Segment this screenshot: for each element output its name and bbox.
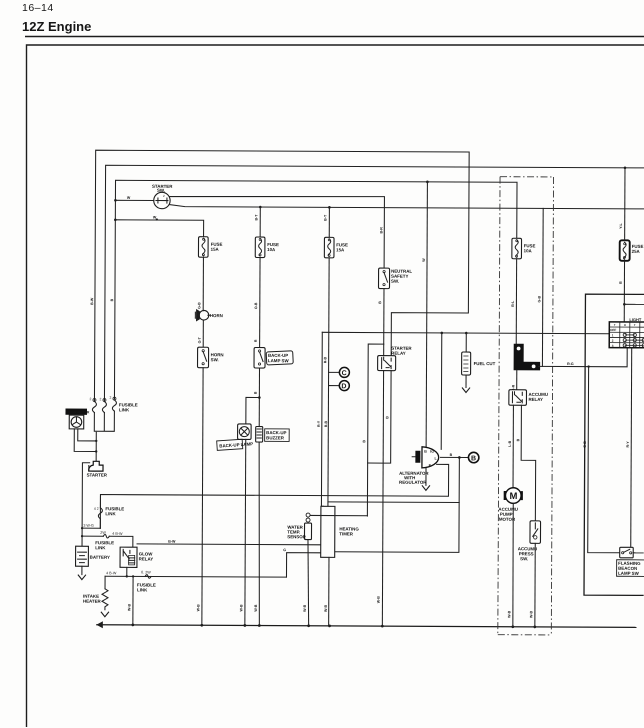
wire horn switch to ground bus bbox=[202, 368, 203, 625]
horn bbox=[195, 310, 222, 321]
dash-dot enclosure box bbox=[498, 177, 554, 635]
fuse F3 15A bbox=[324, 237, 348, 258]
svg-text:B: B bbox=[424, 450, 427, 454]
accumu relay bbox=[509, 390, 548, 406]
wire beacon feed drop bbox=[588, 367, 621, 553]
svg-text:10A: 10A bbox=[267, 247, 276, 252]
svg-text:W-B: W-B bbox=[303, 604, 307, 612]
svg-text:HEATER: HEATER bbox=[83, 599, 102, 604]
wire back-up lamp switch down bbox=[258, 368, 260, 426]
svg-text:RELAY: RELAY bbox=[528, 397, 543, 402]
accumu press switch bbox=[518, 521, 541, 562]
svg-text:1: 1 bbox=[612, 333, 614, 337]
svg-text:LINK: LINK bbox=[105, 511, 116, 516]
frame F4 lighting section bbox=[584, 294, 644, 595]
svg-text:LAMP SW: LAMP SW bbox=[268, 358, 290, 363]
fusible link 6 inline bbox=[137, 570, 156, 592]
heater line bbox=[105, 575, 286, 578]
node junction back-up branch bbox=[258, 396, 261, 399]
wire L-bracket output to light table bbox=[539, 347, 628, 367]
fusible link 5 inline bbox=[103, 534, 109, 538]
node junction fuse5 on F2 rail bbox=[624, 166, 627, 169]
wire neutral safety to starter relay bbox=[383, 289, 385, 356]
svg-text:R-Y: R-Y bbox=[317, 420, 321, 427]
wire fuel cut to ground arrow bbox=[465, 375, 467, 387]
svg-text:SW.: SW. bbox=[211, 357, 219, 362]
svg-text:C: C bbox=[342, 370, 347, 377]
fuse F2 10A bbox=[255, 237, 279, 258]
ground arrow alternator bbox=[422, 485, 430, 490]
main accessory line y=332.5 bbox=[322, 332, 609, 333]
svg-text:B-W: B-W bbox=[90, 297, 94, 305]
wire 3 W-G to fusible link 4 bbox=[82, 527, 100, 529]
wire buzzer to ground bus bbox=[258, 442, 260, 626]
wire starter switch lower output rail to right edge bbox=[169, 205, 644, 209]
connector circle B bbox=[468, 452, 478, 462]
svg-text:10A: 10A bbox=[524, 248, 533, 253]
svg-text:W-B: W-B bbox=[254, 604, 258, 612]
svg-text:2: 2 bbox=[612, 339, 614, 343]
svg-text:15A: 15A bbox=[336, 247, 345, 252]
svg-text:W-B: W-B bbox=[377, 596, 381, 604]
wire sensor to ground bus bbox=[308, 540, 310, 626]
node junction fuse1 feed on F3 riser bbox=[114, 218, 117, 221]
svg-text:B: B bbox=[516, 438, 520, 441]
svg-text:O-B: O-B bbox=[254, 302, 258, 309]
glow relay bbox=[120, 547, 153, 567]
svg-text:REGULATOR: REGULATOR bbox=[399, 480, 427, 485]
svg-text:4 B-W: 4 B-W bbox=[112, 532, 123, 536]
svg-text:RELAY: RELAY bbox=[391, 351, 406, 356]
svg-text:L-B: L-B bbox=[508, 440, 512, 446]
water temp sensor bbox=[287, 513, 311, 540]
wire F1 battery rail (left riser, top run, right drop to starter relay) bbox=[94, 150, 469, 403]
alternator with regulator bbox=[399, 447, 439, 485]
wire battery to ground bbox=[81, 566, 83, 574]
svg-text:2: 2 bbox=[109, 396, 111, 400]
node junction at starter switch feed bbox=[114, 199, 117, 202]
svg-text:HORN: HORN bbox=[210, 313, 223, 318]
wire R-B from fuse3 to heating timer with C D taps bbox=[328, 258, 329, 506]
svg-text:B: B bbox=[471, 455, 476, 462]
node junction fuse2 tap bbox=[259, 206, 262, 209]
svg-text:IG: IG bbox=[430, 450, 434, 454]
starter switch SW circle bbox=[152, 184, 173, 209]
svg-text:G-B: G-B bbox=[537, 295, 541, 302]
svg-text:R-Y: R-Y bbox=[626, 441, 630, 448]
wire alternator L output to connector B bbox=[440, 456, 467, 458]
horizontal rule under heading bbox=[25, 36, 644, 38]
svg-text:W-B: W-B bbox=[239, 604, 243, 612]
wire fuse3 drop bbox=[328, 207, 330, 237]
neutral safety switch bbox=[378, 268, 412, 289]
accumu pump motor bbox=[498, 488, 523, 522]
starter relay bbox=[378, 346, 413, 371]
svg-text:15A: 15A bbox=[211, 247, 220, 252]
svg-text:B: B bbox=[378, 301, 382, 304]
fusible link 4 bbox=[94, 495, 125, 529]
svg-text:BACK-UP LAMP: BACK-UP LAMP bbox=[219, 441, 253, 448]
node junction F3 alternator tap bbox=[426, 181, 429, 184]
node bus junctions bbox=[131, 623, 134, 626]
ground arrow battery bbox=[78, 575, 86, 580]
svg-text:BUZZER: BUZZER bbox=[266, 435, 285, 440]
wire fuse1 to horn bbox=[202, 257, 204, 310]
wire horn to horn switch bbox=[202, 320, 204, 347]
wire back-up lamp to ground bus bbox=[244, 439, 247, 625]
ground arrow intake heater bbox=[101, 612, 109, 617]
back-up buzzer bbox=[256, 426, 290, 442]
horn switch bbox=[198, 347, 224, 368]
svg-text:B-T: B-T bbox=[324, 214, 328, 221]
wire links merge to starter bbox=[94, 411, 114, 461]
svg-text:B-L: B-L bbox=[511, 300, 515, 307]
wire lower branch to heating timer bbox=[286, 553, 320, 578]
svg-text:LINK: LINK bbox=[119, 407, 130, 412]
wire L-bracket to accumu relay bbox=[516, 370, 518, 389]
wire fuse5 riser from F2 rail bbox=[624, 168, 626, 240]
wire glow relay feed 2W with fusible link 5 bbox=[82, 536, 133, 547]
wire stub to right edge bbox=[624, 303, 644, 305]
svg-text:RELAY: RELAY bbox=[139, 556, 154, 561]
svg-text:W-B: W-B bbox=[507, 610, 511, 618]
wire rail drop to beacon feed bbox=[541, 208, 544, 366]
wire starter relay top-left jog bbox=[367, 344, 383, 516]
svg-text:B-T: B-T bbox=[255, 214, 259, 221]
svg-text:SW.: SW. bbox=[391, 279, 399, 284]
svg-text:2W: 2W bbox=[100, 531, 106, 535]
svg-text:M: M bbox=[509, 491, 517, 502]
svg-text:B: B bbox=[254, 391, 258, 394]
connector circle D bbox=[328, 381, 349, 391]
wire fuse2 to back-up lamp switch bbox=[259, 258, 261, 348]
svg-text:16–14: 16–14 bbox=[22, 2, 54, 14]
svg-text:G-B: G-B bbox=[583, 441, 587, 448]
wire fuel cut riser bbox=[465, 333, 467, 352]
wire sensor connector to relay jog riser bbox=[310, 514, 367, 516]
node junction glow relay drop bbox=[126, 575, 128, 577]
node junction fuel cut tap bbox=[465, 332, 468, 335]
node junction hour meter taps bbox=[95, 440, 97, 442]
wire fuse5 to light table bbox=[623, 261, 625, 322]
svg-text:LAMP SW: LAMP SW bbox=[618, 571, 640, 576]
svg-text:R-B: R-B bbox=[323, 356, 327, 363]
wire heating timer bottom to ground bus bbox=[328, 557, 330, 625]
starter motor bbox=[87, 461, 108, 477]
wire fuse2 drop bbox=[259, 207, 261, 237]
wire alternator E loop to long return line bbox=[100, 463, 448, 530]
fusible link 2 bbox=[99, 397, 106, 412]
node junction alternator IG tap bbox=[440, 332, 443, 335]
svg-text:STARTER: STARTER bbox=[87, 472, 108, 477]
wire branch line to B riser bbox=[328, 501, 459, 504]
heating timer bbox=[321, 506, 360, 557]
fuse F1 15A bbox=[198, 237, 222, 258]
wire glow relay to heater line bbox=[126, 567, 128, 576]
svg-text:H: H bbox=[624, 323, 626, 327]
node junction on fuse5 wire with stub to right edge bbox=[623, 303, 626, 306]
svg-text:R-B: R-B bbox=[324, 420, 328, 427]
wire hour meter loop 2 bbox=[74, 429, 96, 452]
wire fuse1 feed bbox=[115, 220, 203, 237]
fuel cut solenoid bbox=[462, 352, 496, 375]
svg-text:R-G: R-G bbox=[567, 362, 574, 366]
flashing beacon lamp switch bbox=[617, 547, 644, 576]
wire accumu relay to pump motor bbox=[512, 405, 514, 487]
svg-text:W-B: W-B bbox=[324, 604, 328, 612]
wire hour meter loop 1 bbox=[78, 429, 97, 441]
svg-text:W-B: W-B bbox=[127, 603, 131, 611]
wire press switch to ground bus bbox=[534, 543, 536, 626]
wire starter switch feed bbox=[115, 199, 153, 201]
node junction beacon feed bbox=[587, 365, 589, 367]
wire IG drop to alternator bbox=[440, 333, 443, 449]
wire R-Y riser to heating timer bbox=[321, 332, 324, 506]
node junction fuse3 tap bbox=[328, 206, 331, 209]
svg-text:W: W bbox=[127, 196, 131, 200]
wire glow relay to heating timer bbox=[137, 543, 320, 546]
svg-text:W-B: W-B bbox=[529, 610, 533, 618]
svg-text:R: R bbox=[254, 339, 258, 342]
hour meter bbox=[65, 409, 89, 429]
svg-text:T: T bbox=[614, 323, 616, 327]
node junction on L output bbox=[458, 456, 461, 459]
svg-text:Y-L: Y-L bbox=[619, 222, 623, 228]
connector circle C bbox=[329, 367, 350, 377]
svg-text:2: 2 bbox=[163, 194, 165, 198]
svg-text:BATTERY: BATTERY bbox=[90, 555, 110, 560]
back-up lamp switch bbox=[254, 347, 293, 368]
svg-text:G-T: G-T bbox=[198, 336, 202, 343]
wire starter relay bottom-right jog bbox=[368, 371, 391, 464]
fuse F5 25A (bold) bbox=[620, 240, 644, 261]
wire table to beacon switch bbox=[630, 348, 633, 548]
svg-text:3 W-G: 3 W-G bbox=[83, 524, 94, 528]
svg-text:G: G bbox=[283, 548, 286, 552]
svg-text:OFF: OFF bbox=[610, 328, 616, 332]
svg-text:0. 2W: 0. 2W bbox=[141, 570, 151, 574]
wire alternator supply W bbox=[426, 182, 427, 447]
svg-text:D: D bbox=[341, 383, 346, 390]
svg-text:W: W bbox=[422, 258, 426, 262]
node junction bus drop from heater line bbox=[132, 575, 134, 577]
wire starter to battery bbox=[82, 463, 90, 547]
wire accumu relay jog to press switch bbox=[521, 405, 536, 521]
svg-text:B: B bbox=[619, 281, 623, 284]
svg-text:SW.: SW. bbox=[520, 556, 528, 561]
fusible link 3 bbox=[109, 396, 137, 413]
svg-text:2: 2 bbox=[89, 397, 91, 401]
bus end arrow bbox=[96, 621, 103, 628]
svg-text:W-B: W-B bbox=[196, 604, 200, 612]
svg-text:B: B bbox=[385, 416, 389, 419]
svg-text:2: 2 bbox=[99, 397, 101, 401]
svg-text:B-W: B-W bbox=[168, 540, 176, 544]
wire starter switch upper output to neutral safety sw bbox=[169, 196, 385, 269]
svg-text:HOUR METER: HOUR METER bbox=[66, 410, 89, 414]
wire branch to back-up lamp bbox=[246, 397, 260, 424]
wire alternator ground bbox=[425, 468, 427, 485]
lighting switch table bbox=[609, 317, 644, 348]
svg-text:SENSOR: SENSOR bbox=[287, 534, 306, 539]
L-bracket component (glow indicator) bbox=[514, 344, 541, 371]
svg-text:LINK: LINK bbox=[95, 545, 106, 550]
wire starter relay to ground bus bbox=[382, 371, 383, 626]
svg-text:LINK: LINK bbox=[137, 587, 148, 592]
fusible link 1 bbox=[89, 397, 96, 412]
svg-text:B-R: B-R bbox=[379, 227, 383, 234]
svg-text:B: B bbox=[110, 298, 114, 301]
svg-text:4 B-W: 4 B-W bbox=[106, 571, 117, 575]
ground bus bbox=[97, 625, 636, 628]
svg-text:12Z Engine: 12Z Engine bbox=[22, 19, 91, 34]
node junction battery taps bbox=[81, 527, 83, 529]
svg-text:B: B bbox=[450, 453, 453, 457]
wire bus drop bbox=[132, 576, 134, 624]
svg-text:FUEL CUT: FUEL CUT bbox=[474, 361, 496, 366]
svg-text:B: B bbox=[362, 440, 366, 443]
svg-text:TIMER: TIMER bbox=[339, 531, 354, 536]
battery bbox=[76, 546, 111, 566]
back-up lamp bbox=[217, 424, 254, 451]
intake heater bbox=[83, 576, 108, 610]
wire motor to ground bus bbox=[512, 503, 515, 626]
svg-text:3: 3 bbox=[612, 344, 614, 348]
wire F3 rail (left riser, top run, drop to fuse 4) bbox=[114, 180, 517, 400]
wire B junction down to heating timer line bbox=[334, 457, 460, 553]
wire F2 rail (left riser and top run to right edge) bbox=[104, 165, 644, 403]
wire fuse4 to L-bracket bbox=[515, 259, 517, 344]
node dot on fuse1 feed bbox=[156, 218, 158, 220]
svg-text:T: T bbox=[634, 323, 636, 327]
svg-text:G-B: G-B bbox=[197, 302, 201, 309]
svg-text:4 2: 4 2 bbox=[94, 507, 99, 511]
svg-text:25A: 25A bbox=[632, 249, 641, 254]
ground arrow fuel cut bbox=[462, 387, 470, 392]
fuse F4 10A bbox=[512, 238, 536, 259]
